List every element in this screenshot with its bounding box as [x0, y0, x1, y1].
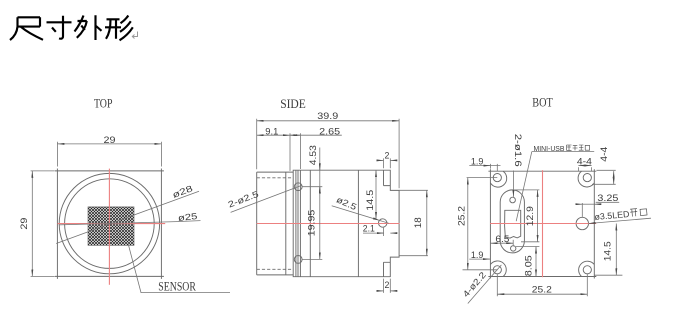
dim 4.53 dimension line: [319, 148, 321, 193]
corner hole bottom-right: [583, 266, 591, 274]
slot hole d1.6 top: [510, 197, 516, 203]
slot hole d1.6 bottom: [511, 246, 516, 251]
svg-text:9.1: 9.1: [265, 127, 278, 137]
dim 4-4 vertical dimension line: [613, 171, 615, 184]
sensor hatched window: [88, 207, 134, 245]
dim 29 vertical extension lines: [31, 171, 55, 277]
svg-text:29: 29: [104, 135, 116, 145]
dim 3.25 dimension line and arrows: [577, 203, 583, 205]
side internal vertical rear: [357, 170, 359, 277]
label zuozi jiekou glyphs: [567, 145, 590, 150]
dim 8.05 extension line: [516, 246, 539, 248]
svg-text:1.9: 1.9: [471, 156, 484, 166]
side internal vertical board: [309, 170, 311, 277]
label led kaikou glyphs: [630, 208, 647, 217]
corner hole bottom-left: [493, 266, 501, 274]
dim 2 top arrows: [378, 159, 384, 161]
barrel hidden dashed lines: [257, 178, 294, 269]
dim 39.9 dimension line: [257, 120, 399, 122]
side step top: [384, 170, 391, 185]
dim 29 horizontal extension lines: [57, 142, 161, 167]
title 尺寸外形 (drawn strokes): [10, 15, 133, 40]
lens inner circle d25: [65, 179, 155, 269]
dim 12.9 dimension line: [537, 190, 539, 242]
dim 9.1 extension line: [289, 133, 291, 171]
svg-text:2: 2: [384, 151, 389, 161]
svg-text:MINI-USB: MINI-USB: [534, 146, 565, 153]
svg-text:2: 2: [384, 280, 389, 290]
svg-text:4.53: 4.53: [308, 145, 318, 165]
dim 2 bottom extension lines: [384, 279, 391, 293]
top view red centerline vertical: [108, 169, 110, 285]
dim 29 horizontal dimension line: [57, 143, 161, 145]
dim 2 bottom arrows: [378, 290, 384, 292]
svg-text:4-4: 4-4: [577, 156, 592, 166]
corner hole top-left: [493, 174, 501, 182]
dim 6.5 extension tick: [512, 240, 514, 247]
dim 25.2 left extension lines: [463, 178, 498, 270]
svg-text:1.9: 1.9: [471, 250, 484, 260]
bot red centerline horizontal: [490, 223, 596, 225]
dim 18 dimension line: [426, 190, 428, 255]
dim 8.05 dimension line: [535, 247, 537, 277]
dim 6.5 dimension line: [491, 242, 514, 244]
svg-text:2.65: 2.65: [319, 127, 340, 137]
corner boss arc bottom-left: [490, 261, 506, 277]
corner boss arc bottom-right: [579, 261, 595, 276]
label underline mini-usb: [532, 151, 594, 153]
dim 14.5 bot extension: [594, 274, 622, 276]
leader d28: [56, 191, 199, 243]
dim 25.2 bottom extension lines: [497, 274, 587, 296]
dim 29 vertical dimension line: [31, 171, 33, 277]
rear screw hole d2.5: [379, 219, 387, 227]
corner boss arc top-left: [490, 171, 506, 187]
leader 4-d2.2: [468, 265, 502, 304]
top housing square: [55, 169, 164, 279]
dim 1.9 top-left dimension line: [469, 165, 500, 167]
flange screw hole top: [294, 183, 302, 191]
svg-text:19.95: 19.95: [307, 210, 317, 237]
flange screw hole bottom: [294, 256, 302, 264]
dim 19.95 dimension line: [319, 187, 321, 260]
corner boss arc top-right: [578, 171, 594, 187]
extension from rear hole center: [383, 228, 385, 236]
svg-text:2-ø1.6: 2-ø1.6: [513, 134, 523, 167]
dim 25.2 left dimension line: [467, 178, 469, 270]
svg-text:12.9: 12.9: [525, 206, 535, 226]
leader mini-usb: [516, 152, 532, 222]
leader d2.5 rear: [332, 206, 389, 223]
bot red centerline vertical: [542, 170, 544, 277]
corner hole top-right: [583, 174, 591, 182]
svg-text:25.2: 25.2: [532, 285, 552, 295]
dim 12.9 extension lines: [513, 190, 540, 242]
side internal verticals flange: [296, 170, 301, 277]
dim 4-4 vertical extension lines: [592, 170, 616, 184]
svg-text:39.9: 39.9: [317, 111, 338, 121]
dim 2.65 dimension line with shelf: [290, 134, 342, 136]
svg-text:SENSOR: SENSOR: [158, 279, 196, 293]
dim 9.1 dimension line: [257, 134, 290, 136]
dim 25.2 bottom dimension line: [497, 293, 587, 295]
svg-text:SIDE: SIDE: [280, 96, 306, 111]
bottom plate outline: [488, 169, 596, 278]
mini-usb connector body: [505, 210, 521, 238]
led opening d3.5: [576, 217, 588, 229]
svg-text:14.5: 14.5: [365, 190, 375, 211]
dim 18 extension lines: [399, 190, 428, 255]
dim 14.5 bot dimension line: [615, 224, 617, 276]
side red centerline: [257, 223, 400, 225]
leader 2-d2.5 flange: [231, 185, 302, 212]
side step bottom: [384, 262, 391, 276]
dim 2 top extension lines: [384, 158, 391, 168]
dim 3.25 extension from led: [581, 203, 583, 217]
svg-text:29: 29: [19, 217, 29, 229]
dim 2.1 shelf and arrows: [363, 232, 384, 234]
dim 14.5 dimension line: [375, 170, 377, 219]
dim 1.9 top-left extension: [490, 164, 497, 172]
leader 2-d1.6: [512, 171, 514, 197]
dim 4-4 horizontal dimension line: [578, 165, 591, 167]
svg-text:BOT: BOT: [532, 95, 553, 110]
lens outer circle d28: [59, 173, 159, 273]
extension line bottom screw hole: [302, 258, 322, 260]
svg-text:8.05: 8.05: [524, 255, 534, 276]
svg-text:6.5: 6.5: [495, 234, 509, 244]
dim 2.65 extension line: [299, 133, 301, 169]
dim 4-4 horizontal ticks: [578, 167, 591, 171]
side body outline: [293, 170, 399, 277]
dim 3.25 shelf: [596, 201, 620, 203]
lens barrel: [257, 172, 294, 275]
leader d25: [59, 221, 201, 225]
usb slot stadium cutout: [500, 190, 524, 253]
dim 39.9 extension lines: [257, 119, 399, 189]
leader SENSOR: [128, 243, 230, 292]
svg-text:18: 18: [413, 217, 423, 228]
svg-text:TOP: TOP: [94, 96, 113, 111]
paragraph return mark: [132, 32, 137, 39]
leader led opening: [589, 218, 652, 223]
dim 1.9 bottom-left dimension line: [469, 258, 490, 260]
svg-text:4-4: 4-4: [599, 147, 609, 162]
top view red centerline horizontal: [58, 223, 166, 225]
svg-text:ø25: ø25: [177, 211, 198, 223]
svg-text:25.2: 25.2: [456, 206, 466, 226]
svg-text:3.25: 3.25: [597, 193, 618, 203]
extension line top screw hole: [302, 186, 322, 188]
svg-text:2.1: 2.1: [363, 224, 375, 234]
svg-text:14.5: 14.5: [603, 241, 613, 261]
